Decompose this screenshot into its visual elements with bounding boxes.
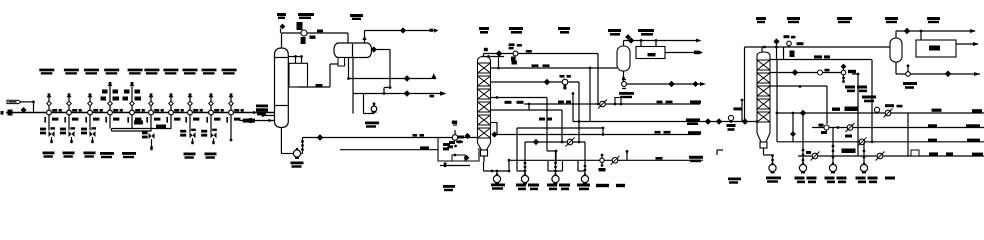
station 4 riser group <box>101 82 123 123</box>
pump P6 <box>581 173 588 183</box>
right top labels <box>756 17 940 23</box>
overhead line C1 <box>282 33 349 48</box>
drop from tag <box>32 101 35 113</box>
C3 overhead instrument <box>784 35 804 47</box>
tag label row L9 <box>202 69 217 75</box>
station 5 riser group <box>123 82 145 123</box>
column C3 cone <box>757 133 770 142</box>
drop x579 <box>578 82 581 143</box>
mid top labels <box>479 27 654 39</box>
C3 feed entry <box>756 120 759 123</box>
bus valve cluster <box>142 132 155 151</box>
E2 feed drops <box>640 39 658 46</box>
C3 overhead bypass <box>774 39 783 59</box>
instrument on overhead <box>297 22 324 44</box>
C2 overhead valve <box>496 51 501 56</box>
line C y142 <box>525 140 585 145</box>
reboiler outlet pipe <box>298 64 346 87</box>
V3 bottom line <box>895 62 897 74</box>
control valve set under station 9 <box>201 115 217 144</box>
C3 reflux downleg <box>743 47 746 123</box>
pump PD label <box>856 177 878 184</box>
bus label a <box>134 121 143 125</box>
pump P4 <box>521 173 528 183</box>
pump P6 loop <box>578 161 585 171</box>
control valve set under station 1 <box>40 115 55 143</box>
C3 overhead line <box>745 46 891 48</box>
line y93 <box>353 91 447 98</box>
y122 instrument <box>727 115 736 130</box>
pump P4 feed <box>524 142 527 175</box>
station 10 riser group <box>226 93 243 122</box>
tag label row L2 <box>64 69 79 75</box>
slv on H4 b <box>876 152 885 161</box>
reboiler body <box>289 63 308 87</box>
E2 outlet <box>665 51 703 55</box>
inlet label <box>1 110 13 116</box>
line I y97 <box>491 96 548 99</box>
overhead drop to drum <box>347 33 349 43</box>
slv on H1 <box>884 109 893 118</box>
y122 labels <box>686 118 748 125</box>
C2 overhead instrument <box>509 43 532 61</box>
C2 top sub line <box>481 55 504 69</box>
pump PA <box>769 162 776 172</box>
drop x590 <box>589 68 591 122</box>
valve on transfer line <box>317 135 322 140</box>
V2 top riser <box>624 38 702 46</box>
drop x908 <box>907 113 909 156</box>
lower transfer line <box>340 146 438 149</box>
column C1 side nozzle <box>262 114 275 117</box>
feed pot loop <box>438 138 479 162</box>
drop x777 <box>776 60 779 115</box>
V2 bottom instrument <box>619 80 634 99</box>
pump P3 <box>493 173 500 183</box>
slanted valve on yC <box>566 138 575 147</box>
drum boot <box>338 58 345 67</box>
end label y104 <box>689 99 691 101</box>
bus line upper <box>112 128 172 130</box>
exchanger E3 <box>916 40 956 57</box>
slv on H2 <box>846 123 855 132</box>
column C2 bottoms <box>484 156 510 175</box>
label under station 8 <box>184 153 196 159</box>
valve near inlet <box>21 108 26 113</box>
drum vent line <box>362 28 438 43</box>
line y122 feed <box>573 121 757 123</box>
column C1 bottoms line <box>281 128 293 154</box>
drum side outlet <box>371 47 390 87</box>
feed pot internals <box>443 140 469 161</box>
column C1 tray line <box>275 58 289 106</box>
x872 labels <box>862 96 876 103</box>
bus bottom label b <box>122 152 136 158</box>
gauge assembly x843 <box>841 64 856 83</box>
C3 overhead riser <box>762 46 766 52</box>
line A y128 <box>517 127 604 136</box>
line y68 to vessel <box>491 67 618 70</box>
pump P4 loop <box>517 128 525 171</box>
V3 bottom instrument <box>903 64 917 88</box>
column C3 dome <box>757 52 770 60</box>
tag label row L4 <box>104 69 119 75</box>
exchanger E2 <box>636 47 665 59</box>
inline tag <box>7 100 34 103</box>
pump PB <box>799 162 806 172</box>
column C2 dome <box>478 57 491 64</box>
pump PC <box>829 162 836 172</box>
main header pipe <box>6 112 275 114</box>
station 3 riser group <box>85 93 102 122</box>
valve on y84 <box>669 81 706 86</box>
station 8 riser group <box>185 93 202 122</box>
line y59 <box>770 51 872 60</box>
feed pot drain <box>440 163 470 168</box>
V2 bottom line <box>622 71 700 84</box>
label under station 2 <box>63 152 75 158</box>
line y74 out <box>896 71 980 76</box>
drop station 4 <box>109 115 111 128</box>
drop x742 <box>734 99 744 122</box>
column C2 boot <box>481 150 488 156</box>
reflux drum V2 <box>617 46 630 71</box>
elbow riser on y93 <box>383 86 392 95</box>
riser x529 <box>524 103 530 110</box>
slv on H3 <box>845 135 867 147</box>
mid pump labels <box>443 184 625 192</box>
tag label row L8 <box>183 69 198 75</box>
y160 labels <box>656 156 704 162</box>
pump P3 discharge riser <box>508 159 511 173</box>
line y72 <box>770 69 844 75</box>
column C1 shell <box>275 48 289 128</box>
flow arrow connector <box>238 118 275 123</box>
y68 tags <box>512 61 550 68</box>
line H3 y141 <box>777 139 984 144</box>
E3 outlet <box>956 42 979 46</box>
label under station 3 <box>84 152 96 158</box>
pump P1 <box>293 148 300 158</box>
line H4 y156 <box>798 150 984 156</box>
control valve set under station 8 <box>180 115 196 144</box>
station 9 riser group <box>206 93 223 122</box>
line H1 y113 <box>777 107 984 116</box>
transfer line y137 <box>303 137 478 139</box>
right mid labels <box>845 86 867 93</box>
pump P1 discharge riser <box>301 138 304 154</box>
pump P1 label <box>291 162 304 168</box>
line H2 y127 <box>812 124 984 127</box>
drop station 6 <box>150 115 152 131</box>
top labels left area <box>277 13 363 20</box>
drum nozzle b <box>352 58 354 114</box>
tag label row L3 <box>84 69 99 75</box>
bus line lower <box>112 129 152 132</box>
E3 feed drop <box>920 31 922 40</box>
pump PC feed <box>832 128 835 165</box>
tag label row L6 <box>144 69 159 75</box>
line y160 <box>509 159 703 161</box>
main line tag <box>253 108 268 115</box>
H4 label above <box>842 149 856 154</box>
slanted valve on y104 <box>598 100 607 109</box>
column C2 packed sections <box>478 63 491 143</box>
x777 lower <box>776 113 778 142</box>
line y82 <box>491 75 580 89</box>
drum weir <box>352 44 354 57</box>
drop x872 <box>871 60 873 142</box>
pump P5 loop <box>548 161 563 171</box>
vent relief valve <box>280 24 284 33</box>
label under station 9 <box>205 153 217 159</box>
slv on H4 a <box>806 151 820 161</box>
line y86 <box>770 85 827 124</box>
hood on y104 <box>614 98 623 106</box>
V3 top riser <box>896 28 976 38</box>
drop x547 <box>546 98 548 152</box>
pump P2 label <box>365 122 379 128</box>
line y104 <box>529 103 700 105</box>
drop x793 <box>791 112 795 142</box>
station 2 riser group <box>64 93 81 122</box>
column C3 packed sections <box>757 60 770 133</box>
line D y151 <box>547 150 556 152</box>
C2 overhead <box>484 48 599 57</box>
tag label row L1 <box>39 69 54 75</box>
bus label b <box>156 125 166 129</box>
pump PD feed <box>863 142 866 165</box>
station 1 riser group <box>44 93 61 122</box>
vessel V3 <box>890 38 902 62</box>
column C3 bottoms <box>764 148 774 164</box>
inst on H1 <box>874 104 902 113</box>
feed instrument <box>448 121 465 149</box>
stub x573 <box>572 92 575 121</box>
control valve set under station 3 <box>81 115 96 143</box>
inst on H2 <box>819 124 840 134</box>
line II y110 <box>491 101 563 110</box>
line y78 <box>349 74 437 81</box>
pump P5 feed <box>554 150 557 176</box>
bus bottom label a <box>100 152 114 158</box>
pump PB feed <box>802 112 805 165</box>
pump P6 feed <box>584 142 587 175</box>
line B y134 <box>497 134 700 136</box>
tag label row L5 <box>128 69 143 75</box>
column C1 label <box>256 105 268 111</box>
column C3 boot <box>760 142 767 148</box>
drop station 10 <box>230 115 233 141</box>
pump PC label <box>825 177 847 184</box>
tag label row L7 <box>163 69 178 75</box>
right bottom extra label <box>885 177 895 180</box>
pump PA label <box>728 177 781 184</box>
station 7 riser group <box>166 93 183 122</box>
pump PD <box>860 162 867 172</box>
drop station 7 <box>170 115 172 128</box>
y160 stub <box>626 150 629 160</box>
slanted valve on y160 <box>611 156 620 165</box>
drop x562 <box>561 110 564 143</box>
line III y122 <box>491 118 553 137</box>
tag label row L10 <box>222 69 237 75</box>
reboiler stubs <box>288 55 303 63</box>
station 6 riser group <box>146 93 163 122</box>
pump P2 assembly <box>364 94 377 114</box>
feed valve <box>465 134 470 139</box>
pump P5 <box>552 173 559 183</box>
y160 instrument <box>599 154 606 172</box>
drop station 5 <box>131 115 133 128</box>
control valve set under station 2 <box>60 115 75 143</box>
transfer line tags <box>413 134 425 137</box>
pump PB label <box>795 177 817 184</box>
y104 labels <box>558 100 701 103</box>
overhead downleg x598 <box>597 54 600 106</box>
yB labels <box>655 131 702 135</box>
drop x858 <box>852 73 859 156</box>
y160 right bracket <box>717 150 723 155</box>
column C2 cone <box>478 143 491 150</box>
label under station 1 <box>43 152 55 158</box>
drum nozzle a <box>347 58 350 80</box>
reflux drum D1 <box>334 43 372 58</box>
